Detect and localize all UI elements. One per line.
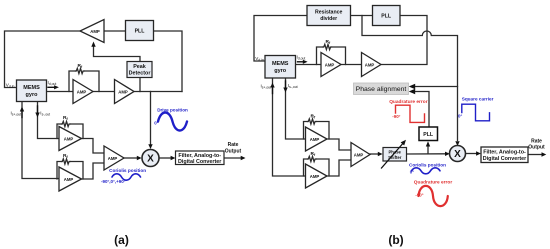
svg-text:Rf: Rf <box>63 153 68 159</box>
wire: PLL2 b output to phase alignment lower input <box>414 92 429 128</box>
svg-text:-90°,0°,+90°: -90°,0°,+90° <box>101 179 126 184</box>
op-amp U4a <box>59 127 82 151</box>
waveform sine quadrature error b <box>419 186 448 206</box>
wire: amp U3b output to summing amp U5b upper input <box>327 139 351 150</box>
svg-text:Output: Output <box>528 145 545 151</box>
op-amp U5a <box>59 167 82 191</box>
arrowhead: into phase shifter <box>378 152 383 156</box>
svg-text:Drive position: Drive position <box>157 108 188 113</box>
svg-text:Output: Output <box>225 149 242 155</box>
wire: amp U2a to amp U3a <box>93 91 115 93</box>
svg-text:AMP: AMP <box>365 62 375 67</box>
MEMS gyro block a <box>17 80 47 102</box>
wire: amp U3a output to node at x182 <box>134 91 182 93</box>
op-amp U5b summing <box>351 143 370 167</box>
arrowhead: into filter block b <box>476 151 481 155</box>
arrowhead: into filter block a <box>171 156 176 160</box>
arrowhead: into phase alignment lower <box>409 89 416 95</box>
svg-text:AMP: AMP <box>310 174 320 179</box>
PLL block b <box>373 6 401 26</box>
waveform squiggle coriolis b <box>412 168 441 174</box>
svg-text:Filter, Analog-to-: Filter, Analog-to- <box>483 150 526 156</box>
wire: filter block b to rate output b <box>528 154 542 156</box>
peak detector block a <box>127 62 152 78</box>
wire: amp U2b output up to PLL b input <box>381 16 427 65</box>
annotation drive position (blue) a <box>154 108 188 126</box>
arrowhead: into multiplier X1a left <box>137 156 142 160</box>
wire: drive reference down to multiplier X1a <box>150 92 152 145</box>
op-amp U2a <box>73 80 93 104</box>
waveform square quadrature error b <box>396 105 425 122</box>
annotation arrow Is+,out b (up) <box>270 83 274 94</box>
arrowhead: into phase alignment upper <box>409 84 416 90</box>
svg-text:Id,out: Id,out <box>48 80 57 86</box>
wire: MEMS a output to amp U2a <box>47 91 74 93</box>
wire: drive reference with hop over U2b-PLL wire <box>362 16 458 141</box>
op-amp U2b <box>362 53 382 77</box>
arrowhead: into multiplier X1b top <box>455 141 459 146</box>
multiplier X1b <box>450 146 466 162</box>
annotation coriolis position (blue) b <box>409 163 446 175</box>
wire: amp U1a output to MEMS drive input (left loop, diagram a) <box>5 31 81 88</box>
annotation coriolis position (blue) a <box>101 168 146 184</box>
op-amp U1b <box>321 53 341 77</box>
arrowhead: gain control into U1a <box>91 42 95 47</box>
wire: resistance divider to PLL b <box>351 15 373 17</box>
annotation arrow Id,out a <box>48 85 59 89</box>
svg-text:-90°: -90° <box>392 114 400 119</box>
svg-text:gyro: gyro <box>26 92 39 98</box>
svg-text:Rf: Rf <box>63 115 68 121</box>
wire: amp U4b output to summing amp U5b lower input <box>327 160 351 176</box>
op-amp U3a <box>115 80 135 104</box>
svg-text:AMP: AMP <box>310 137 320 142</box>
svg-text:divider: divider <box>320 16 337 22</box>
svg-text:X: X <box>454 149 461 160</box>
svg-text:Coriolis position: Coriolis position <box>109 168 146 173</box>
svg-text:Coriolis position: Coriolis position <box>409 163 446 168</box>
wire: branch to phase alignment upper input <box>414 86 458 88</box>
diagonal adjust arrow through phase shifter <box>382 140 407 168</box>
svg-text:Rf: Rf <box>311 114 316 120</box>
arrowhead: rate output a <box>241 156 246 160</box>
op-amp U1a (variable gain, points left) <box>80 20 104 43</box>
op-amp U3b <box>306 127 328 151</box>
resistor Rf feedback of amp U4a <box>57 121 83 138</box>
wire: PLL a output to amp U1a input <box>104 30 126 32</box>
svg-text:MEMS: MEMS <box>272 61 289 67</box>
op-amp U4b <box>306 164 328 188</box>
multiplier X1a <box>142 150 159 167</box>
svg-text:AMP: AMP <box>90 29 100 34</box>
svg-text:Rate: Rate <box>228 142 239 148</box>
svg-text:Square carrier: Square carrier <box>462 97 494 102</box>
wire: multiplier X1b to filter block b <box>466 153 478 155</box>
annotation arrow Is+,out a (up) <box>20 107 24 118</box>
annotation arrow Is-,out b (down) <box>283 81 287 93</box>
svg-text:PLL: PLL <box>381 13 392 19</box>
waveform squiggle coriolis a <box>112 174 141 180</box>
svg-text:PLL: PLL <box>423 132 434 138</box>
wire: MEMS b output to amp U1b <box>296 64 322 66</box>
svg-text:Rf: Rf <box>326 39 331 45</box>
svg-text:Is-,out: Is-,out <box>288 83 298 89</box>
wire: summing amp U5b to phase shifter <box>370 153 378 155</box>
wire: filter block a to rate output a <box>224 157 241 159</box>
svg-text:Phase alignment: Phase alignment <box>356 86 407 93</box>
arrowhead: into PLL2 b bottom <box>426 141 430 146</box>
op-amp U6a summing <box>104 146 124 170</box>
wire: demod node up into PLL2 b <box>427 146 429 154</box>
wire: sense minus output of MEMS b to amp U4b <box>273 78 306 176</box>
wire: PLL a right side down to drive sense node <box>154 31 183 92</box>
annotation arrow Id,out b <box>298 60 308 64</box>
svg-text:MEMS: MEMS <box>23 85 40 91</box>
phase alignment block b <box>354 83 409 95</box>
wire: peak detector output to U1a gain control <box>94 47 141 62</box>
arrowhead: into multiplier X1b left <box>445 152 450 156</box>
svg-text:AMP: AMP <box>108 156 118 161</box>
svg-text:Detector: Detector <box>129 71 152 77</box>
annotation arrow Is-,out a (down) <box>35 106 39 118</box>
wire: multiplier X1a to filter block a <box>159 157 171 159</box>
wire: peak detector input from drive wire <box>139 78 141 92</box>
svg-text:gyro: gyro <box>274 68 287 74</box>
svg-text:Rf: Rf <box>311 151 316 157</box>
label rate output b <box>528 138 545 150</box>
filter ADC block b <box>481 147 528 163</box>
wire: amp U4a output to summing amp U6a upper input <box>82 139 105 154</box>
svg-text:Quadrature error: Quadrature error <box>389 99 428 105</box>
svg-text:0°: 0° <box>458 114 462 119</box>
resistor Rf feedback of amp U2a <box>69 68 99 91</box>
annotation quadrature error lower (red) b <box>414 180 453 198</box>
filter ADC block a <box>176 151 225 165</box>
wire: sense plus output of MEMS a to amp U4a <box>38 102 60 139</box>
svg-text:Is+,out: Is+,out <box>11 110 22 116</box>
svg-text:Id,out: Id,out <box>297 54 306 60</box>
arrowhead: into multiplier X1a top <box>148 144 152 149</box>
resistance divider block b <box>307 6 351 26</box>
svg-text:Rate: Rate <box>531 138 542 144</box>
svg-text:AMP: AMP <box>77 89 87 94</box>
waveform sine drive position a <box>158 113 187 131</box>
svg-text:Peak: Peak <box>133 64 146 70</box>
svg-text:X: X <box>147 154 154 165</box>
svg-text:AMP: AMP <box>354 152 364 157</box>
resistor Rf feedback of amp U3b <box>304 119 330 139</box>
svg-text:(b): (b) <box>388 233 403 247</box>
svg-text:AMP: AMP <box>64 136 74 141</box>
resistor Rf feedback of amp U4b <box>304 156 330 176</box>
svg-text:Digital Converter: Digital Converter <box>178 159 222 165</box>
PLL block a <box>126 21 154 41</box>
svg-text:PLL: PLL <box>135 28 146 34</box>
resistor Rf feedback of amp U1b <box>317 44 346 64</box>
resistor Rf feedback of amp U5a <box>57 159 83 179</box>
wire: amp U5a output to summing amp U6a lower input <box>82 163 105 179</box>
PLL2 block b <box>419 127 438 141</box>
svg-text:Resistance: Resistance <box>315 10 343 16</box>
svg-text:AMP: AMP <box>325 62 335 67</box>
annotation quadrature error upper (red) b <box>389 99 428 119</box>
wire: resistance divider left to MEMS b drive input <box>254 16 307 62</box>
svg-text:(a): (a) <box>114 233 129 247</box>
svg-text:Is+,out: Is+,out <box>261 84 272 90</box>
svg-text:Is-,out: Is-,out <box>40 110 50 116</box>
label rate output a <box>225 142 242 154</box>
wire: sense plus output of MEMS b to amp U3b <box>286 78 306 139</box>
svg-text:Quadrature error: Quadrature error <box>414 180 453 186</box>
MEMS gyro block b <box>265 56 296 79</box>
wire: summing amp U6a to multiplier X1a <box>124 157 137 159</box>
arrowhead: rate output b <box>542 152 547 156</box>
svg-text:AMP: AMP <box>118 89 128 94</box>
annotation square carrier (blue) b <box>458 97 494 119</box>
svg-text:Rf: Rf <box>78 63 83 69</box>
phase shifter block b <box>383 148 407 162</box>
wire: amp U1b to amp U2b <box>341 64 362 66</box>
svg-text:AMP: AMP <box>64 177 74 182</box>
waveform square carrier b <box>462 104 490 121</box>
svg-text:Digital Converter: Digital Converter <box>483 156 527 162</box>
wire: sense minus output of MEMS a to amp U5a <box>22 102 59 179</box>
wire: phase shifter to multiplier X1b <box>407 153 446 155</box>
